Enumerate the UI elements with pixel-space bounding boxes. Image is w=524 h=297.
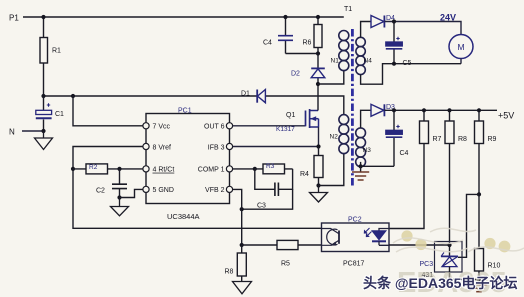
wire top DC bus rail (23, 16, 344, 18)
node N (9, 128, 44, 137)
watermark logo circles (401, 230, 510, 252)
svg-text:C4: C4 (263, 40, 272, 47)
svg-text:VFB 2: VFB 2 (205, 187, 225, 194)
svg-text:R9: R9 (488, 136, 497, 143)
junction R8 / LED cathode / TL431 (447, 243, 451, 247)
junction R2-pin4 wire / C2 (117, 167, 121, 171)
shunt regulator PC3 TL431 (420, 242, 480, 280)
diode D1 (241, 90, 265, 103)
transformer winding N2 (330, 115, 349, 154)
svg-text:R8: R8 (458, 136, 467, 143)
wire COMP pin to compensation network (233, 168, 255, 170)
ground below R4 (310, 186, 328, 203)
wire divider to R10 (478, 194, 480, 248)
pin 7 Vcc (143, 123, 171, 131)
wire N4 top to D4 (361, 22, 371, 38)
svg-text:R4: R4 (300, 171, 309, 178)
resistor R3 (255, 163, 293, 174)
svg-text:N4: N4 (364, 58, 373, 65)
junction +5V rail / R7 (422, 108, 426, 112)
ground below R8 lower (233, 282, 252, 294)
svg-text:8 Vref: 8 Vref (153, 144, 171, 151)
resistor R4 (300, 147, 323, 186)
svg-text:D2: D2 (291, 71, 300, 78)
svg-text:+5V: +5V (498, 111, 514, 121)
junction top rail / R1 (41, 15, 45, 19)
resistor R8 upper (445, 110, 467, 245)
wire N1 bottom to drain node (318, 71, 344, 84)
svg-text:C1: C1 (55, 111, 64, 118)
resistor R9 (475, 110, 497, 194)
junction COMP network left (253, 167, 257, 171)
svg-text:K1317: K1317 (276, 126, 295, 133)
svg-text:R1: R1 (52, 48, 61, 55)
svg-text:5 GND: 5 GND (153, 187, 174, 194)
resistor R6 (303, 17, 323, 54)
wire N3 bottom / C4 secondary return (361, 165, 394, 168)
junction C1 / N (41, 129, 45, 133)
pin 1 COMP (198, 166, 233, 174)
junction N3 bottom ground (359, 164, 363, 168)
svg-text:PC2: PC2 (348, 217, 362, 224)
svg-text:PC1: PC1 (178, 108, 192, 115)
transformer winding N3 (356, 128, 371, 167)
transformer T1 core (351, 29, 354, 188)
svg-text:T1: T1 (344, 6, 352, 13)
resistor R7 (389, 110, 442, 228)
wire REF of TL431 to divider (458, 194, 479, 257)
svg-text:R2: R2 (89, 164, 98, 171)
svg-text:R7: R7 (433, 136, 442, 143)
svg-text:N1: N1 (331, 58, 340, 65)
wire Vcc bus rail (44, 96, 344, 115)
svg-text:D1: D1 (241, 91, 250, 98)
resistor R8 lower (225, 245, 247, 282)
svg-text:Q1: Q1 (286, 112, 295, 119)
wire drain of Q1 up to snubber node (317, 84, 319, 111)
wire 24V rail (384, 22, 461, 35)
pin 4 Rt/Ct (143, 166, 174, 174)
junction Vcc rail / Vcc branch (71, 94, 75, 98)
svg-text:7 Vcc: 7 Vcc (153, 124, 171, 131)
pin 5 GND (143, 186, 174, 194)
wire Vcc branch to pin 7 (73, 96, 143, 126)
wire LED cathode to TL431 (389, 244, 450, 246)
pin 6 OUT (204, 123, 233, 131)
svg-text:C2: C2 (96, 188, 105, 195)
junction 24V return / C5 bottom (392, 62, 396, 66)
junction top rail / R6 (316, 15, 320, 19)
watermark swirls (393, 228, 524, 252)
earth ground below N3 (352, 166, 369, 180)
wire VFB pin down to feedback node (233, 189, 242, 245)
junction IFB / source / R4 (316, 144, 320, 148)
wire compensation network return to VFB vertical (242, 189, 293, 209)
svg-text:N3: N3 (363, 147, 372, 154)
capacitor C1 (36, 96, 64, 131)
phototransistor of PC2 (327, 229, 338, 245)
junction +5V rail / R8 (447, 108, 451, 112)
junction drain node D2 / N1 bottom (316, 82, 320, 86)
junction R9 R10 divider / REF (477, 192, 481, 196)
svg-text:头条 @EDA365电子论坛: 头条 @EDA365电子论坛 (363, 275, 517, 291)
svg-text:R6: R6 (303, 40, 312, 47)
svg-text:IFB 3: IFB 3 (208, 144, 225, 151)
LED of PC2 (379, 229, 389, 231)
svg-text:C3: C3 (257, 203, 266, 210)
capacitor C3 (255, 169, 293, 210)
junction VFB feedback node (240, 243, 244, 247)
svg-text:4 Rt/Ct: 4 Rt/Ct (153, 167, 175, 174)
diode D3 (371, 104, 395, 116)
resistor R1 (40, 17, 61, 96)
wire OUT pin to gate of Q1 (233, 125, 306, 127)
capacitor C4 secondary (386, 110, 409, 166)
capacitor C4 primary snubber (263, 17, 293, 54)
junction snubber bottom / D2 (316, 51, 320, 55)
optocoupler PC2 PC817 (322, 217, 390, 268)
svg-text:R8: R8 (225, 269, 234, 276)
svg-text:PC817: PC817 (343, 261, 365, 268)
diode D4 (371, 15, 395, 28)
pin 8 Vref (143, 143, 171, 151)
transistor Q1 MOSFET K1317 (276, 109, 319, 133)
transformer winding N4 (356, 37, 372, 74)
motor M (449, 35, 473, 64)
wire N3 top to D3 (361, 110, 371, 128)
svg-text:C4: C4 (400, 150, 409, 157)
diode D2 (291, 54, 325, 85)
pin 2 VFB (205, 186, 233, 194)
ground below C2 (111, 198, 129, 216)
junction Vcc rail / C1 (41, 94, 45, 98)
wire IFB pin to current sense node (233, 127, 319, 147)
transformer winding N1 (331, 31, 349, 71)
resistor R5 (242, 240, 322, 267)
wire snubber bottom C4 to R6 (286, 53, 319, 55)
wire Vref rail down left side and along bottom to PC2 (73, 147, 322, 229)
capacitor C2 (96, 169, 127, 198)
resistor R2 (73, 164, 143, 174)
pin 3 IFB (208, 143, 233, 151)
wire 24V return (361, 64, 461, 84)
wire R4 bottom node to N2 bottom (319, 154, 344, 186)
junction top rail / C4 (283, 15, 287, 19)
junction +5V rail / R9 (477, 108, 481, 112)
svg-text:UC3844A: UC3844A (167, 212, 200, 221)
svg-text:OUT 6: OUT 6 (204, 124, 225, 131)
op-amp U1 PWM controller UC3844A PC1 (146, 108, 230, 222)
junction Vref rail / R2 (71, 167, 75, 171)
junction comp return / VFB vertical (240, 207, 244, 211)
svg-text:R3: R3 (266, 163, 275, 170)
svg-text:COMP 1: COMP 1 (198, 167, 225, 174)
wire +5V rail (384, 109, 497, 111)
earth ground below R10 (471, 285, 487, 292)
resistor R10 (475, 249, 501, 285)
svg-text:P1: P1 (9, 14, 19, 23)
svg-text:M: M (457, 42, 464, 52)
junction TL431 anode / R10 ground (477, 277, 481, 281)
junction +5V rail / C4 secondary (392, 108, 396, 112)
ground below C1 (35, 131, 53, 150)
svg-text:N: N (9, 128, 15, 137)
capacitor C5 (386, 22, 412, 68)
junction R4 bottom / N2 return (316, 183, 320, 187)
wire C2 node to pin 5 GND (120, 189, 143, 197)
junction 24V rail / C5 (392, 19, 396, 23)
svg-text:R5: R5 (281, 261, 290, 268)
svg-text:24V: 24V (440, 13, 456, 23)
junction C2 bottom / GND pin wire (117, 195, 121, 199)
svg-text:N2: N2 (330, 134, 339, 141)
